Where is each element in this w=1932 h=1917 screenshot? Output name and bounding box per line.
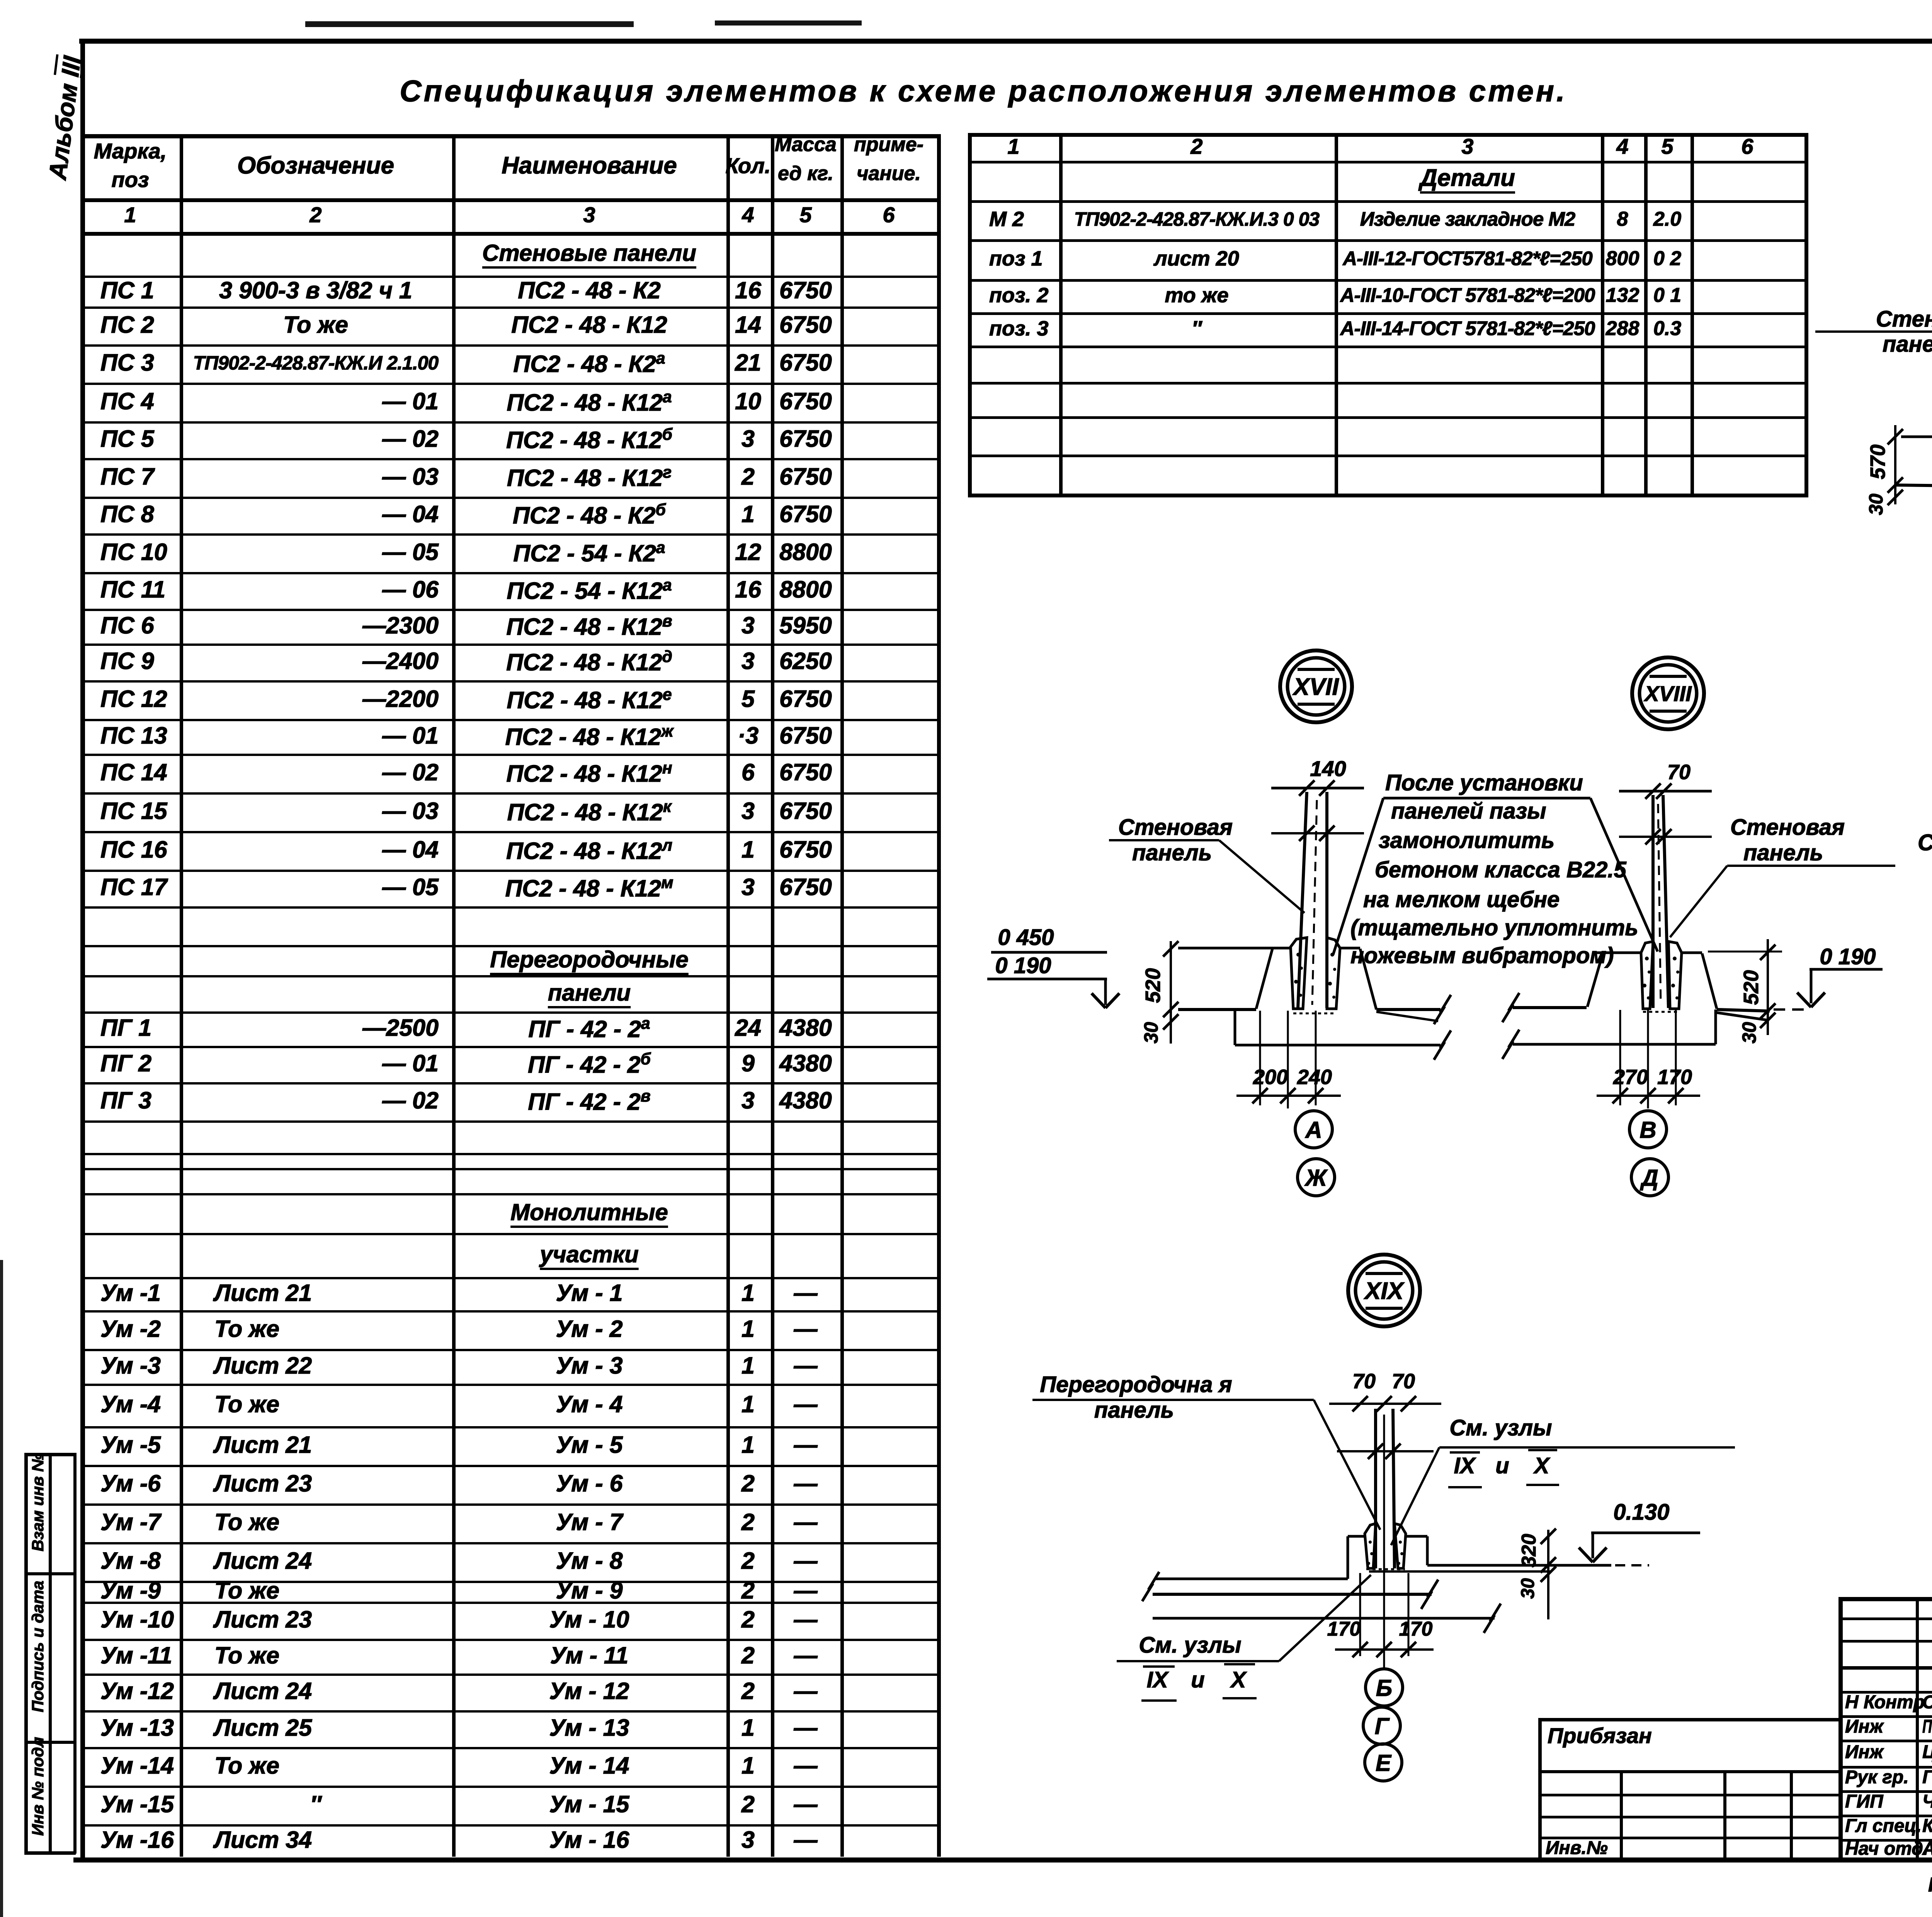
- spec row Ум -1: [100, 1279, 161, 1307]
- spec row line y=1950: [81, 754, 937, 756]
- spec row ПГ 2: [100, 1049, 151, 1078]
- spec row line y=3087: [81, 1193, 937, 1195]
- spec row line y=4425: [81, 1710, 937, 1713]
- spec row line y=4620: [81, 1786, 937, 1788]
- spec row ПС 1: [100, 276, 154, 305]
- svg-text:520: 520: [1740, 970, 1763, 1005]
- spec header col2: [237, 152, 394, 180]
- spec row Ум -14: [100, 1752, 174, 1780]
- spec header col1: [94, 138, 167, 164]
- svg-text:320: 320: [1518, 1534, 1540, 1568]
- spec row line y=3690: [81, 1426, 937, 1428]
- spec row line y=2899: [81, 1120, 937, 1123]
- svg-text:140: 140: [1310, 756, 1346, 781]
- svg-text:Б: Б: [1376, 1675, 1392, 1701]
- paper edge artifact left: [0, 1260, 3, 1917]
- spec header col4: [726, 153, 771, 179]
- joint groove right (XIX): [1395, 1524, 1406, 1568]
- joint groove left (XVII): [1291, 938, 1307, 1009]
- spec row line y=1380: [81, 533, 937, 536]
- svg-text:В: В: [1639, 1117, 1656, 1143]
- datum line (XX): [1895, 485, 1932, 488]
- titleblock row Гл спец. Козловичер: [1845, 1815, 1922, 1837]
- spec row ПС 15: [100, 797, 167, 825]
- scan smudge top 1: [305, 21, 634, 27]
- joint groove right (XVII): [1327, 938, 1340, 1009]
- spec row Ум -7: [100, 1508, 161, 1536]
- spec row line y=3580: [81, 1384, 937, 1386]
- right dims 520/30 (XVIII): [1767, 939, 1769, 1035]
- node marker XIX: [1348, 1255, 1420, 1326]
- titleblock row ГИП Чирков: [1845, 1791, 1883, 1813]
- spec row Ум -3: [100, 1352, 161, 1380]
- label Album III (rotated): [43, 54, 87, 181]
- spec row line y=2983: [81, 1153, 937, 1155]
- spec row ПС 17: [100, 873, 167, 901]
- axis circle axis V (XVIII): [1629, 1111, 1667, 1148]
- svg-text:См. узлы: См. узлы: [1449, 1415, 1552, 1440]
- spec row line y=3304: [81, 1277, 937, 1279]
- axis circle axis B (XIX): [1366, 1669, 1403, 1706]
- svg-text:170: 170: [1399, 1618, 1433, 1640]
- svg-text:200: 200: [1253, 1066, 1288, 1089]
- spec row ПГ 3: [100, 1086, 151, 1115]
- spec row Ум -13: [100, 1714, 174, 1742]
- spec row line y=1760: [81, 680, 937, 683]
- spec row Ум -8: [100, 1547, 161, 1575]
- frame left border: [80, 39, 85, 1860]
- joint groove left (XIX): [1365, 1524, 1376, 1568]
- svg-text:0 190: 0 190: [995, 953, 1051, 978]
- svg-text:270: 270: [1613, 1066, 1648, 1089]
- spec row line y=2706: [81, 1046, 937, 1048]
- svg-text:Стеновая: Стеновая: [1118, 815, 1233, 840]
- spec row Ум -2: [100, 1315, 161, 1343]
- svg-text:30: 30: [1518, 1578, 1538, 1599]
- spec row ПС 8: [100, 500, 154, 528]
- floor section (XX): [1901, 436, 1932, 438]
- spec row ПС 9: [100, 647, 154, 675]
- spec row line y=3390: [81, 1310, 937, 1313]
- sidebar label 3: [28, 1737, 48, 1836]
- inv no label: [1546, 1837, 1608, 1859]
- details row поз. 2: [989, 283, 1049, 308]
- spec header col3: [502, 152, 677, 180]
- spec row line y=4240: [81, 1639, 937, 1641]
- spec row Ум -11: [100, 1641, 172, 1670]
- details section title: [1420, 164, 1515, 192]
- spec row line y=4520: [81, 1747, 937, 1749]
- spec row line y=713: [81, 276, 937, 278]
- svg-text:30: 30: [1738, 1022, 1760, 1044]
- details table horizontals: [968, 133, 1808, 137]
- spec row line y=2345: [81, 906, 937, 909]
- svg-text:панель: панель: [1094, 1398, 1174, 1423]
- svg-text:170: 170: [1657, 1066, 1692, 1089]
- spec row ПС 2: [100, 311, 154, 339]
- right dims 320/30 (XIX): [1547, 1530, 1549, 1619]
- titleblock row Инж Петропавловская: [1845, 1716, 1883, 1738]
- scan smudge top 2: [715, 20, 862, 26]
- svg-text:Е: Е: [1376, 1750, 1392, 1776]
- bottom dims 200/240 (XVII): [1259, 1011, 1261, 1105]
- left dims 520/30 (XVII): [1170, 941, 1172, 1044]
- spec row line y=2445: [81, 945, 937, 947]
- floor section (XIX): [1348, 1535, 1365, 1538]
- svg-text:панелей пазы: панелей пазы: [1391, 798, 1546, 824]
- svg-text:Г: Г: [1375, 1713, 1390, 1739]
- svg-text:XIX: XIX: [1364, 1278, 1405, 1304]
- svg-text:70: 70: [1667, 761, 1690, 784]
- svg-text:А: А: [1304, 1117, 1322, 1143]
- svg-text:XVII: XVII: [1292, 674, 1339, 700]
- spec row line y=2250: [81, 870, 937, 872]
- title block left verticals: [1916, 1597, 1919, 1860]
- svg-text:Д: Д: [1639, 1165, 1658, 1191]
- svg-text:После установки: После установки: [1385, 770, 1583, 795]
- kop label: [1928, 1873, 1932, 1897]
- spec row line y=3890: [81, 1503, 937, 1506]
- details header numbers: [1007, 133, 1019, 159]
- svg-text:X: X: [1533, 1453, 1551, 1478]
- spec row line y=2523: [81, 975, 937, 977]
- spec row line y=891: [81, 344, 937, 347]
- spec row line y=1860: [81, 719, 937, 721]
- floor section (XVII): [1178, 947, 1291, 950]
- axis circle axis E (XIX): [1365, 1744, 1402, 1781]
- bottom dims 270/170 (XVIII): [1619, 1010, 1621, 1105]
- svg-text:70: 70: [1392, 1370, 1415, 1393]
- svg-text:70: 70: [1352, 1370, 1376, 1393]
- frame bottom border: [73, 1857, 1932, 1863]
- svg-text:170: 170: [1327, 1618, 1361, 1640]
- node marker XVII: [1280, 650, 1352, 722]
- svg-text:X: X: [1230, 1667, 1247, 1692]
- spec row ПС 5: [100, 425, 154, 453]
- spec row Ум -12: [100, 1677, 174, 1705]
- spec row ПС 4: [100, 387, 154, 415]
- svg-text:XVIII: XVIII: [1643, 681, 1692, 706]
- spec table header lines: [81, 134, 941, 138]
- spec row line y=3190: [81, 1233, 937, 1235]
- spec section участки: [540, 1241, 639, 1268]
- spec row line y=2617: [81, 1011, 937, 1014]
- titleblock row Н Контр Семенова: [1845, 1691, 1925, 1714]
- titleblock row Инж Цветкова: [1845, 1741, 1883, 1764]
- spec row line y=1185: [81, 458, 937, 460]
- spec row line y=4330: [81, 1674, 937, 1676]
- svg-text:замонолитить: замонолитить: [1379, 828, 1554, 853]
- sidebar label 1: [28, 1453, 48, 1551]
- svg-text:Перегородочна я: Перегородочна я: [1040, 1372, 1232, 1397]
- datum (XVII): [1178, 1008, 1256, 1011]
- svg-text:и: и: [1191, 1667, 1204, 1692]
- spec row line y=2800: [81, 1082, 937, 1084]
- spec row line y=4720: [81, 1824, 937, 1827]
- svg-text:240: 240: [1297, 1066, 1332, 1089]
- privyazan table: [1538, 1718, 1838, 1721]
- svg-text:520: 520: [1141, 968, 1165, 1003]
- spec row Ум -9: [100, 1577, 161, 1605]
- spec row Ум -4: [100, 1390, 161, 1418]
- spec section Перегородочные: [490, 946, 689, 974]
- svg-text:0.130: 0.130: [1613, 1500, 1669, 1525]
- node marker XVIII: [1632, 657, 1704, 729]
- datum (XVIII): [1513, 1006, 1587, 1009]
- axis circle axis D (XVIII): [1631, 1159, 1668, 1196]
- svg-text:Стеновая: Стеновая: [1730, 815, 1845, 840]
- title block left small rows: [1838, 1617, 1932, 1620]
- sidebar stamp boxes: [24, 1453, 28, 1854]
- axis circle axis A (XVII): [1295, 1111, 1332, 1148]
- joint groove right (XVIII): [1668, 941, 1682, 1009]
- spec section Монолитные: [510, 1199, 668, 1226]
- wall panel (XVII): [1298, 792, 1307, 1008]
- svg-text:30: 30: [1140, 1022, 1162, 1044]
- spec row line y=3022: [81, 1168, 937, 1170]
- sidebar label 2: [28, 1581, 48, 1712]
- spec header col6: [854, 133, 923, 157]
- spec row line y=990: [81, 383, 937, 385]
- details row поз. 3: [989, 316, 1049, 341]
- spec row Ум -6: [100, 1469, 161, 1498]
- spec row ПС 13: [100, 722, 167, 750]
- spec row line y=1575: [81, 609, 937, 611]
- spec row line y=1090: [81, 421, 937, 424]
- svg-text:Стеновая: Стеновая: [1876, 306, 1932, 332]
- sheet title: [400, 73, 1567, 109]
- spec header col5: [775, 133, 837, 157]
- spec row ПС 6: [100, 611, 154, 640]
- spec row line y=3790: [81, 1465, 937, 1467]
- spec section Стеновые панели: [482, 239, 696, 267]
- frame top border: [79, 39, 1932, 44]
- svg-text:IX: IX: [1147, 1667, 1169, 1692]
- spec row line y=4090: [81, 1581, 937, 1583]
- svg-text:Совместно с данным см. л л К: Совместно с данным см. л л КЖ-16 ÷18,20.: [1918, 830, 1932, 855]
- spec row line y=2050: [81, 792, 937, 795]
- spec table verticals: [81, 134, 85, 1857]
- details table verticals: [968, 133, 972, 494]
- spec header numbers row: [124, 202, 136, 228]
- spec row Ум -10: [100, 1605, 174, 1634]
- left dims 570/30 (XX): [1894, 425, 1896, 504]
- titleblock row Нач отд. Альтшуллер: [1845, 1838, 1928, 1860]
- spec row line y=3990: [81, 1542, 937, 1544]
- bottom dims 170/170 (XIX): [1359, 1573, 1361, 1656]
- title block outer: [1838, 1597, 1932, 1601]
- svg-text:30: 30: [1865, 494, 1887, 515]
- spec row line y=2150: [81, 831, 937, 833]
- svg-text:IX: IX: [1454, 1453, 1476, 1478]
- svg-text:0 450: 0 450: [998, 925, 1054, 950]
- details row М 2: [989, 207, 1024, 232]
- spec row Ум -5: [100, 1431, 161, 1459]
- axis circle axis G (XIX): [1363, 1707, 1400, 1744]
- svg-text:(тщательно уплотнить: (тщательно уплотнить: [1350, 915, 1638, 940]
- wall panel (XVIII): [1651, 795, 1655, 1008]
- slab lines (XIX): [1153, 1593, 1432, 1596]
- spec row line y=1480: [81, 572, 937, 574]
- svg-text:ножевым вибратором): ножевым вибратором): [1350, 943, 1614, 968]
- svg-text:на мелком щебне: на мелком щебне: [1363, 887, 1560, 912]
- spec row ПС 11: [100, 575, 165, 604]
- svg-text:0 190: 0 190: [1820, 944, 1876, 969]
- svg-text:и: и: [1495, 1453, 1509, 1478]
- spec row ПС 14: [100, 758, 167, 787]
- svg-text:панель: панель: [1132, 840, 1212, 865]
- privyazan label: [1548, 1723, 1652, 1748]
- partition panel (XIX): [1374, 1409, 1377, 1568]
- note balloon (XVII): [1383, 797, 1590, 800]
- spec row ПС 10: [100, 538, 167, 566]
- foundation (XVII): [1234, 1010, 1236, 1045]
- svg-text:570: 570: [1866, 444, 1889, 479]
- spec row ПС 16: [100, 836, 167, 864]
- svg-text:См. узлы: См. узлы: [1139, 1633, 1241, 1658]
- floor section (XVIII): [1596, 952, 1641, 954]
- svg-text:панель: панель: [1743, 840, 1823, 865]
- svg-text:Ж: Ж: [1304, 1165, 1328, 1191]
- spec row ПС 12: [100, 685, 167, 713]
- svg-text:панель: панель: [1883, 332, 1932, 357]
- spec row line y=3490: [81, 1349, 937, 1351]
- spec row ПС 3: [100, 349, 154, 377]
- foundation (XVIII): [1513, 1043, 1716, 1046]
- joint groove left (XVIII): [1641, 941, 1653, 1009]
- spec row ПС 7: [100, 463, 154, 491]
- svg-text:бетоном класса В22.5: бетоном класса В22.5: [1375, 857, 1626, 882]
- spec row Ум -16: [100, 1826, 174, 1854]
- titleblock row Рук гр. Гарбуз: [1845, 1766, 1909, 1789]
- spec row Ум -15: [100, 1790, 174, 1818]
- spec row line y=793: [81, 306, 937, 309]
- spec row line y=4144: [81, 1602, 937, 1604]
- details row поз 1: [989, 246, 1043, 271]
- spec section панели: [548, 979, 631, 1007]
- axis circle axis Zh (XVII): [1298, 1159, 1335, 1196]
- spec row ПГ 1: [100, 1014, 151, 1042]
- spec row line y=1285: [81, 497, 937, 499]
- spec row line y=1665: [81, 644, 937, 646]
